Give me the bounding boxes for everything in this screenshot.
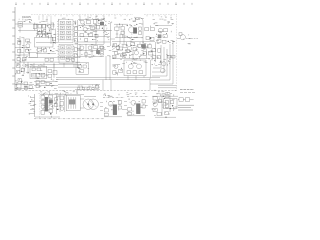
junction IF a [47,25,48,26]
wire shield bottom b [158,87,177,89]
amp box outline [124,60,146,76]
wire long bus upper2 [15,61,80,63]
capacitor C46 [100,52,103,55]
dotted board outline right edge [176,15,178,91]
IC2 pins right [73,47,75,60]
top ruler scale [15,2,192,5]
resistor R32 [37,73,40,77]
left ruler border line [14,7,16,91]
wire mid a [78,43,104,45]
wire motor2 bottom [127,115,145,117]
capacitor C29r [48,74,52,77]
resistor R40 [49,105,53,108]
wire pa mid vertical [55,95,57,114]
note line 3 [156,93,168,95]
OSC labels 2 [116,33,143,40]
wire IF drops [39,16,51,21]
capacitor C5 [74,21,76,24]
wire rc vertical b [169,94,171,112]
transformer T5 windings [69,97,76,109]
transistor Q20 [41,105,45,109]
capacitor C41 [158,99,161,102]
diode D8 [92,87,95,90]
resistor R27 [127,71,131,74]
capacitor C13 [93,20,96,24]
IC1 outline [59,20,74,43]
tuner block labels [37,31,56,36]
wire IF v1 [36,24,38,36]
capacitor C6 [74,27,77,30]
wire IF row4 [36,42,58,44]
electrolytic C35 dark bar [45,97,48,111]
wire motor1 bottom [104,116,122,118]
junction AF a [98,20,103,29]
IC1 internal elements [59,21,74,40]
resistor R17c [162,40,166,43]
psu box outline [76,62,88,74]
resistor R44 [119,106,122,109]
capacitor C43 [46,82,49,85]
input labels [19,19,32,24]
resistor R30 [119,69,123,72]
wire rect b [58,86,100,88]
wire IC right vertical [77,20,79,68]
out labels [184,34,191,44]
resistor R35 [24,82,28,85]
IC2 pins left [58,47,60,60]
resistor R53 [179,98,183,102]
bottom dotted box left edge [39,94,41,118]
capacitor C11 [17,57,20,60]
wire diag [112,44,120,50]
capacitor C36 [55,98,58,101]
resistor R14 [145,28,149,31]
relay box parts [165,101,174,108]
capacitor C25 [158,49,161,52]
wire mid b [78,49,104,51]
svg-text:DRAWN: DRAWN [22,16,31,19]
shield labels 2 [156,31,175,44]
wire dashed out [186,38,198,40]
wire input bus 2 [18,30,38,32]
speaker SP1 left cone [83,99,93,109]
resistor R50 [153,97,157,100]
wire AF exit right [111,38,116,40]
IF text row 2 [40,29,55,31]
motor2 dashed top [127,96,149,98]
dashed board outline bottom edge [15,90,177,92]
wire AF top [78,18,104,20]
motor2 label [126,93,145,95]
resistor R20b [119,47,123,50]
resistor R2a [38,25,41,28]
wire t5 out [80,99,84,108]
transformer T1 [129,27,135,33]
capacitor C15 [95,34,98,37]
resistor R24 [148,52,152,55]
transistor Q4 [83,27,87,31]
wire OSC v2 [122,24,124,38]
tuner bottom labels [37,49,59,54]
capacitor C42 [36,85,39,88]
transistor Q16 [161,68,166,73]
junction node B [150,38,151,39]
resistor R16 [164,29,168,32]
junction rc [165,117,166,118]
wire input bus [15,23,38,25]
capacitor C22 [115,51,118,54]
wire AF a [78,30,112,32]
resistor R18 [94,46,98,49]
dotted board outline top edge right part [144,14,177,16]
wire AF b [78,36,110,38]
capacitor C14 [97,25,100,29]
wire shield bottom a [158,85,177,87]
wire mid verticals [80,44,92,58]
regulator D1 [100,22,104,25]
capacitor C47 [121,54,124,57]
electrolytic C30 [17,83,21,89]
resistor R36t [18,79,21,82]
osc marks [119,24,137,27]
capacitor C24 [143,52,146,56]
capacitor C49 [24,86,27,89]
AF cluster labels 2 [79,24,109,41]
resistor R25b [152,55,156,58]
resistor R37 [80,70,84,73]
junction drv [124,45,144,58]
diode D2 [103,30,107,33]
wire predriver verticals [106,56,110,80]
wire rect a [58,84,100,86]
resistor R60 [36,81,39,84]
resistor R34 [48,70,52,73]
junction lc [22,47,29,51]
transformer T5 core [69,100,75,105]
IC1 pins left [57,22,59,40]
junction mb [44,83,51,88]
diode D4 [78,65,81,68]
resistor R22b [138,44,142,47]
resistor R17b [157,40,161,43]
resistor R61 [41,81,44,84]
capacitor C50 [122,53,125,56]
bus strip parts [45,58,75,61]
resistor R23 [147,45,151,48]
resistor R56 [165,112,169,115]
note line 2 [180,91,196,93]
wire IF v3 [45,24,47,33]
resistor R31 [37,68,41,71]
wire t5 left v [60,94,65,112]
resistor R4 [74,54,77,57]
resistor R11 [90,27,94,30]
wire shield L3 [152,49,167,76]
motor1 labels2 [105,101,124,113]
capacitor C1 [33,23,36,31]
wire bus under IC2 b [30,66,80,68]
capacitor C8 [74,39,77,42]
wire mb a [34,81,58,83]
motor1 pin ticks [100,102,103,110]
transistor Q3 [81,20,85,24]
capacitor C26 [113,71,116,74]
capacitor C16 [121,26,124,30]
transistor Q8 [180,35,185,40]
resistor R55 [157,112,161,115]
resistor R3c [52,37,56,40]
wire AF mid [78,24,104,26]
AF cluster labels [80,16,105,21]
capacitor C31 [29,86,32,89]
wire shield top [155,24,172,26]
motor2 pin ticks [124,101,127,109]
note text line 1 [178,104,194,106]
junction shield [168,41,169,42]
motor1 dashed top [103,97,125,99]
transistor Q2 [26,44,30,48]
capacitor C37 dark bar [113,105,117,115]
resistor R62 [17,65,20,68]
dotted line pin ticks right [147,15,171,17]
resistor R51 [153,108,157,111]
capacitor C48 [17,70,20,73]
wire rc bottom [155,116,176,118]
wire bus under IC2 a [30,64,80,66]
wire speaker top [84,96,96,98]
transistor Q17 [128,64,133,69]
wire lb b [15,87,34,89]
motor1 label [103,94,119,98]
antenna jack J1 [18,22,23,27]
diode D6 [82,87,85,90]
capacitor C3 vert [52,23,54,29]
resistor R13 [115,27,119,30]
tone internal labels [32,70,48,78]
shield parts labels [152,55,173,66]
capacitor C39 dark bar [136,104,140,114]
resistor R42 [104,109,108,112]
wire IF v2 [41,24,43,33]
speaker SP1 right cone [88,99,98,109]
capacitor C38 [119,101,122,104]
note text line 3 [178,109,193,111]
tone box outline [30,66,47,79]
resistor R7 [22,57,26,60]
mid cluster labels [79,44,103,57]
transistor Q14 [134,51,138,55]
top mid labels [105,20,112,29]
resistor R6 [26,39,30,42]
transistor Q23 [153,102,157,106]
resistor R63 [25,64,28,67]
IF text row 3 [39,35,49,39]
wire OSC top [114,23,128,25]
resistor R21 [123,44,127,47]
capacitor C17 [121,31,124,34]
speaker SP1 left dot [87,103,89,105]
transistor Q1 [48,25,51,28]
pa labels [42,94,61,117]
resistor R26a [167,55,170,58]
resistor R43 [104,113,108,116]
transistor Q15 [162,62,166,66]
capacitor C20 [158,35,161,38]
left parts col b [60,102,64,106]
resistor R28 [133,71,137,74]
volume pot VR1 [30,52,37,57]
wire rc link [178,99,194,101]
left bottom labels [15,79,32,89]
resistor R45 [128,108,132,111]
resistor R5b [26,49,29,52]
note line 1 [180,88,194,90]
speaker hatch [85,101,97,108]
left column labels [17,38,31,62]
capacitor C9 [74,48,77,51]
speaker SP1 right dot [92,103,94,105]
transformer T5 outline [66,95,80,111]
connector pin labels [29,95,37,114]
capacitor C25b [157,56,160,59]
wire left verticals [20,58,28,74]
motor2 labels2 [126,99,148,115]
wire long bus A [56,77,160,79]
wire IF v4 [50,21,52,45]
wire jack drop [19,27,21,33]
transistor Q22 [131,100,136,105]
rect labels [78,85,99,88]
wire vertical rail x143 [142,21,144,44]
tuner block pins [37,35,52,38]
IC2 internal elements [59,46,73,60]
resistor R12b [80,33,84,36]
capacitor C44 dark [49,100,53,104]
wire IF row2 [36,32,52,34]
resistor R17 [163,35,167,38]
capacitor C18 [139,27,142,30]
wire shield L5 [150,42,173,84]
wire tone vertical [53,64,55,78]
wire pa top [40,94,60,96]
transistor Q7 [158,28,162,32]
amp box labels [126,62,147,64]
wire AF b2 [78,41,110,43]
wire IF row1 [36,23,52,25]
capacitor C34 [41,100,45,104]
resistor R39 [49,95,53,98]
label DRAWN [22,16,31,19]
wire rect c [75,89,100,91]
resistor R29 [139,71,143,74]
transformer T1 core [133,28,136,34]
wire curve to rail [134,17,143,21]
transistor Q12 [84,52,88,56]
IC1 pins right [73,22,75,40]
tuner block outline [35,37,54,47]
wire det a [15,47,30,49]
resistor R20 [113,44,117,47]
electrolytic C33 [41,95,45,99]
resistor R5 [18,49,21,52]
resistor R2b [42,25,45,28]
wire misc v2 [120,30,124,44]
wire IF v5 [55,29,57,45]
wire driver bottom [112,58,150,60]
IC1 label [59,18,69,21]
psu labels [77,63,89,72]
driver labels2 [112,45,156,61]
wire bus drop x150 [149,78,151,90]
capacitor C23 [142,44,146,48]
note text line 2 [178,107,191,109]
transistor Q18 [137,64,142,69]
transformer T5 labels [61,91,78,96]
junction node A [50,50,51,51]
resistor R33 [41,73,44,77]
left mid labels [16,64,29,76]
wire below tuner [36,52,56,54]
capacitor C2 [43,49,46,52]
relay box RL1 outline [163,99,177,109]
connector pin rows [30,97,35,113]
resistor R26b [172,55,175,58]
wire misc v1 [96,24,104,44]
driver labels [112,41,152,59]
transistor Q11 [88,46,92,50]
right cluster labels2 [152,96,178,116]
wire mid c [78,55,104,57]
wire psu drops [103,80,111,91]
resistor R54 [185,98,189,102]
resistor R24b [113,55,116,58]
wire OSC v1 [116,24,118,38]
wire connector vertical [34,94,36,117]
mid cluster labels2 [100,46,112,57]
bus stubs [34,63,74,67]
right cluster top labels [154,90,176,96]
resistor R47 [142,105,145,108]
wire drops from top rail [80,16,104,21]
wire pa bottom [35,116,60,118]
predriver labels [112,63,125,75]
transistor Q21 [108,101,113,106]
wire shield L4 [151,44,170,80]
wire long bus upper [28,57,80,59]
resistor R52 [165,95,169,98]
capacitor C45 [21,68,24,71]
capacitor C28i [32,73,35,77]
wire det b [15,54,30,56]
wire AF vertical [110,22,112,46]
resistor R25 [152,49,156,52]
capacitor C40 [142,100,145,103]
tuner bottom stubs [38,47,50,49]
right column labels [74,23,80,54]
capacitor C15b [85,38,88,41]
junction IF b [47,33,48,34]
mid bottom labels [36,79,58,89]
resistor R19b [100,46,103,49]
junction rc2 [163,96,171,110]
capacitor C19 [146,36,149,39]
OSC labels [114,18,143,28]
wire mb b [34,85,58,87]
wire amp drops [128,76,144,80]
resistor R40b [49,109,53,112]
bottom dotted box bottom edge [34,118,104,120]
resistor R1 [38,49,42,52]
